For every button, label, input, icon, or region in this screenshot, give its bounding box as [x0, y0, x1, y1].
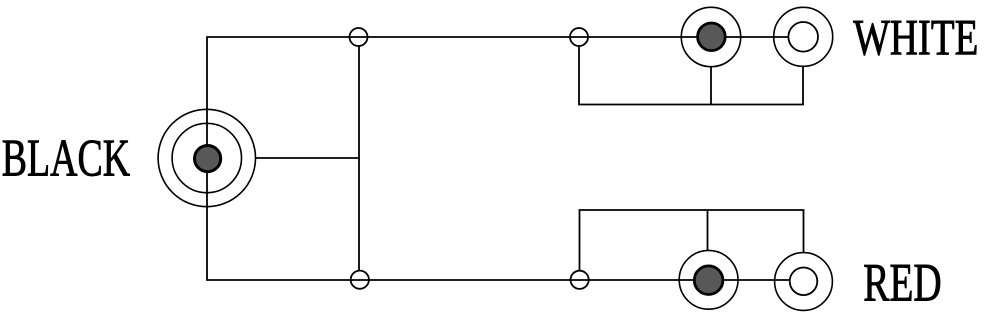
svg-text:RED: RED: [863, 254, 941, 312]
svg-text:WHITE: WHITE: [853, 10, 978, 66]
wire: RED ring jack J5 shield riser: [803, 210, 805, 253]
node C junction on bottom rail: [351, 271, 369, 289]
wire: WHITE dark jack J2 shield drop: [710, 66, 712, 104]
svg-text:BLACK: BLACK: [2, 128, 130, 187]
wire: WHITE ring jack J3 shield drop: [802, 66, 804, 104]
RCA jack J2 (WHITE, tip contact): [681, 7, 740, 66]
wire: left vertical bus at x=207: [206, 36, 208, 281]
node A junction on top rail: [350, 28, 368, 46]
RCA plug J1 BLACK: [158, 109, 255, 206]
wire: BLACK plug center tap to middle vertical: [256, 157, 360, 159]
wire: bottom bar above RED jacks: [579, 209, 805, 211]
node B junction on top rail: [570, 28, 588, 46]
wire: top rail from node A to WHITE jack J3: [207, 36, 803, 38]
node D junction on bottom rail: [571, 271, 589, 289]
wire: middle vertical from node A to node C: [358, 46, 360, 271]
wire: top bar under WHITE jacks: [578, 104, 804, 106]
wire: bottom rail from plug bus to RED jack J5: [207, 279, 803, 281]
wire: RED dark jack J4 shield riser: [707, 210, 709, 250]
RCA jack J5 (RED, ring): [775, 253, 833, 311]
wire: node B drop to top bar: [578, 46, 580, 105]
wire: node D riser to bottom bar: [579, 210, 581, 271]
RCA jack J4 (RED, tip contact): [679, 250, 738, 309]
RCA jack J3 (WHITE, ring): [774, 7, 833, 66]
